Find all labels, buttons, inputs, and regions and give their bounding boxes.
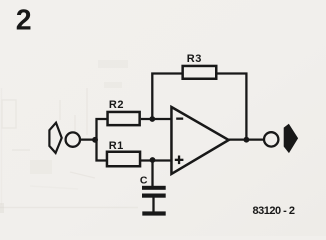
svg-text:R3: R3 <box>187 53 202 65</box>
svg-text:83120 - 2: 83120 - 2 <box>253 205 295 217</box>
svg-text:2: 2 <box>16 5 32 37</box>
svg-text:R1: R1 <box>109 140 124 152</box>
svg-text:C: C <box>140 174 148 186</box>
svg-text:R2: R2 <box>109 99 124 111</box>
